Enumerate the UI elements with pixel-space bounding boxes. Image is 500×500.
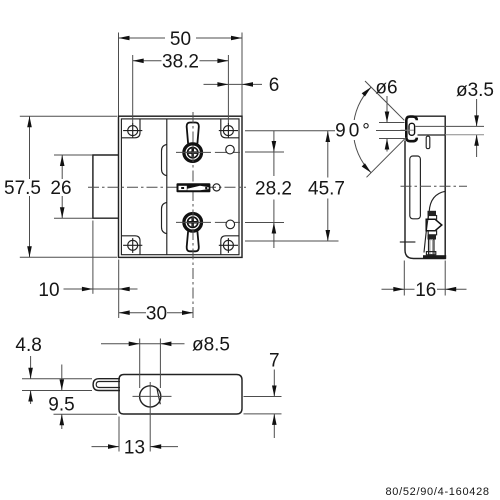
svg-text:16: 16	[415, 280, 436, 301]
svg-text:30: 30	[146, 304, 167, 325]
svg-text:57.5: 57.5	[4, 178, 41, 199]
svg-text:ø3.5: ø3.5	[456, 80, 494, 101]
svg-text:9.5: 9.5	[48, 394, 74, 415]
svg-text:50: 50	[170, 29, 191, 50]
svg-text:7: 7	[269, 350, 280, 371]
svg-text:28.2: 28.2	[255, 179, 292, 200]
svg-text:38.2: 38.2	[162, 52, 199, 73]
svg-text:10: 10	[38, 280, 59, 301]
svg-text:13: 13	[124, 437, 145, 458]
svg-text:80/52/90/4-160428: 80/52/90/4-160428	[385, 486, 489, 498]
svg-text:45.7: 45.7	[308, 179, 345, 200]
svg-text:ø8.5: ø8.5	[192, 335, 230, 356]
svg-text:4.8: 4.8	[15, 335, 41, 356]
svg-text:26: 26	[50, 178, 71, 199]
svg-text:90°: 90°	[335, 121, 373, 142]
svg-text:6: 6	[269, 75, 280, 96]
